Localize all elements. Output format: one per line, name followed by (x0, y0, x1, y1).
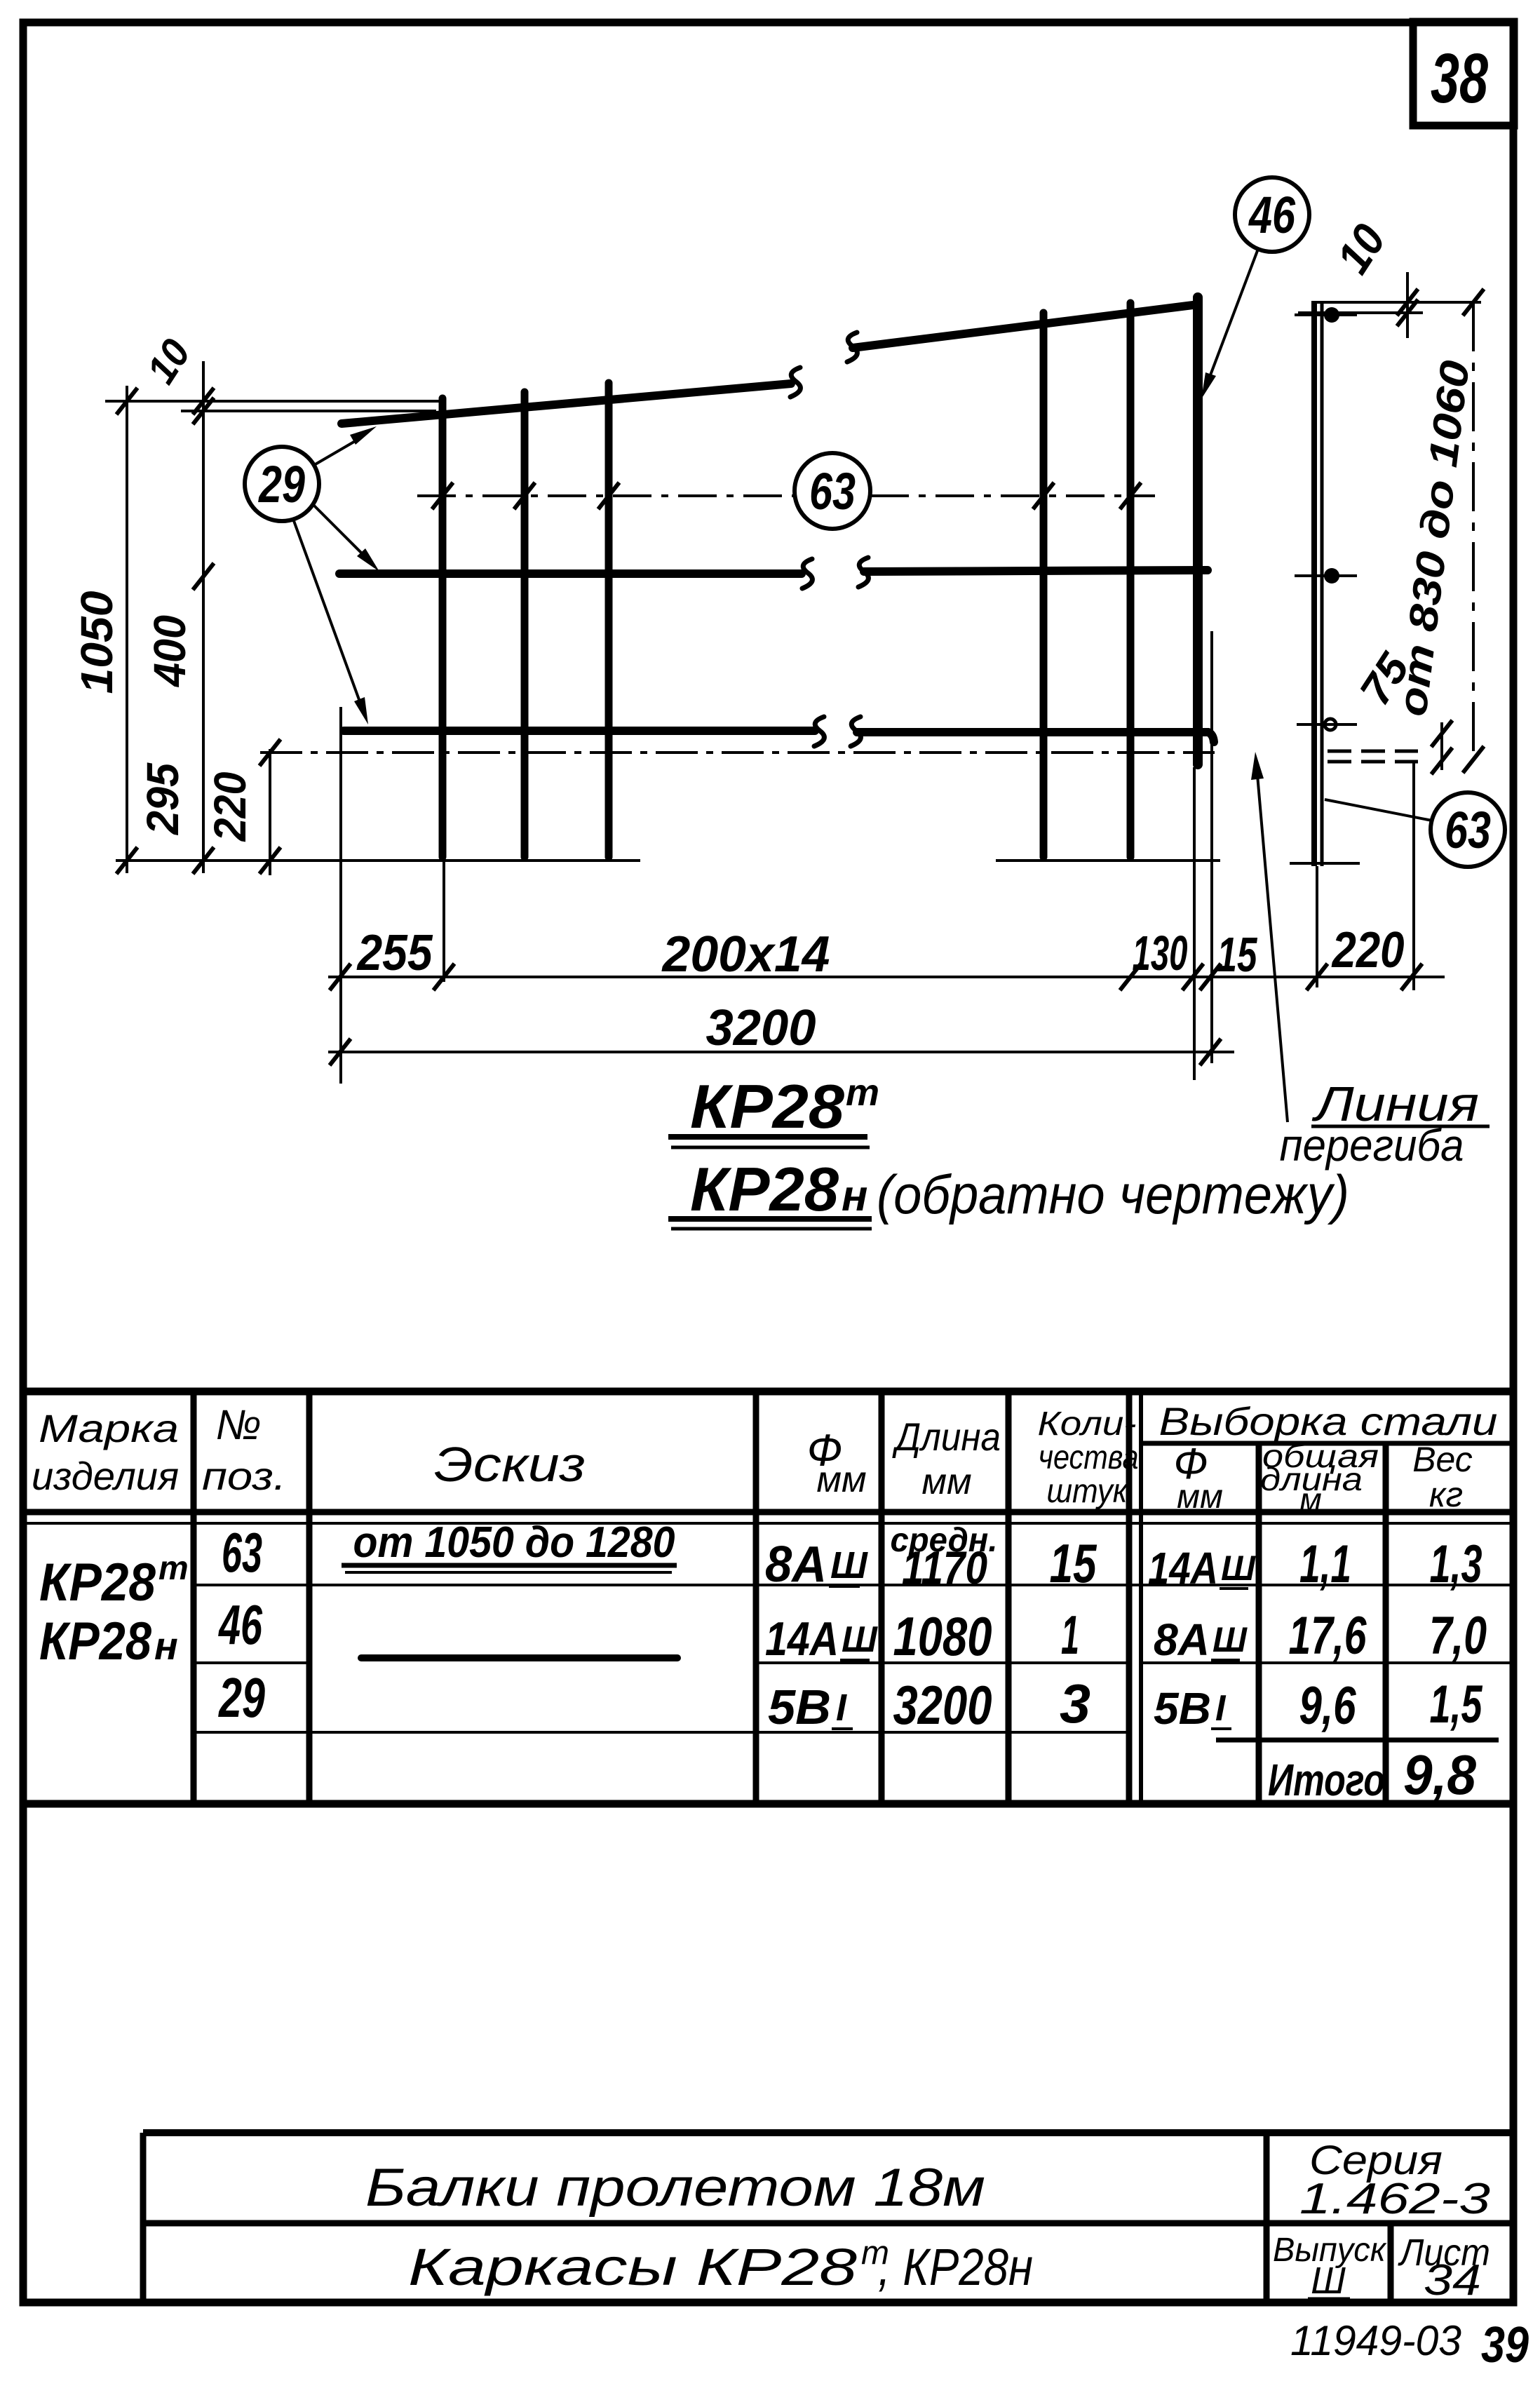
svg-text:400: 400 (144, 615, 195, 688)
table v7 (1256, 1443, 1262, 1804)
table row line 1 (194, 1584, 1513, 1586)
table outer top (23, 1388, 1513, 1396)
stirrup 4 (pos 63) (1040, 313, 1048, 857)
svg-text:46: 46 (1248, 186, 1295, 244)
svg-text:мм: мм (816, 1459, 866, 1500)
svg-text:295: 295 (137, 762, 188, 835)
svg-text:15: 15 (1217, 927, 1258, 982)
svg-text:Коли-: Коли- (1038, 1405, 1137, 1443)
svg-text:перегиба: перегиба (1280, 1120, 1464, 1171)
bottom bar right segment (857, 732, 1214, 742)
svg-text:Ш: Ш (1311, 2260, 1346, 2302)
svg-text:1170: 1170 (902, 1542, 987, 1593)
svg-text:н: н (154, 1624, 178, 1668)
svg-text:от 1050 до 1280: от 1050 до 1280 (353, 1518, 675, 1567)
sketch bar row 46 (361, 1654, 677, 1661)
svg-text:Итого: Итого (1268, 1755, 1385, 1805)
svg-text:Ш: Ш (1213, 1620, 1248, 1659)
svg-text:КР28: КР28 (39, 1612, 152, 1671)
svg-text:8А: 8А (765, 1537, 827, 1593)
tick x290 y586 (193, 398, 214, 424)
tick d2 x1726 (1200, 1039, 1221, 1065)
callout circle 63 right (1431, 792, 1505, 867)
svg-text:5В: 5В (768, 1680, 831, 1734)
svg-text:63: 63 (809, 462, 856, 520)
break mark bottom bar right (851, 717, 860, 746)
title block mid (143, 2220, 1513, 2227)
break mark bottom bar left (814, 717, 824, 746)
section fold dashes upper (1328, 750, 1418, 753)
tick d1 x1612 (1120, 964, 1141, 990)
title block left (140, 2133, 147, 2302)
svg-text:29: 29 (257, 455, 305, 513)
svg-text:Эскиз: Эскиз (434, 1437, 586, 1492)
tick x2007 y446 (1397, 299, 1418, 326)
tick d1 x1726 (1200, 964, 1221, 990)
table v5 (1006, 1391, 1012, 1804)
svg-text:29: 29 (218, 1666, 266, 1729)
svg-text:№: № (216, 1401, 262, 1448)
tick d1 x485 (330, 964, 351, 990)
break mark top bar left (790, 367, 800, 397)
svg-text:Каркасы КР28: Каркасы КР28 (408, 2238, 857, 2296)
section top bar dot (1324, 307, 1339, 323)
svg-text:1: 1 (1061, 1604, 1079, 1666)
svg-text:Ш: Ш (830, 1544, 868, 1586)
base reference line (116, 861, 1360, 863)
bottom bar (pos 29) left segment (344, 727, 815, 735)
top reference line (105, 400, 440, 403)
leader 29 to top bar (314, 438, 361, 465)
tick x385 y1073 (259, 739, 281, 766)
svg-text:14А: 14А (765, 1612, 839, 1666)
tick x290 y1227 (193, 847, 214, 874)
ext x2016 (1412, 761, 1415, 990)
section middle bar dot (1324, 568, 1339, 584)
svg-text:Марка: Марка (39, 1406, 179, 1450)
tick x2056 y1046 (1431, 720, 1452, 747)
leader 29 to middle bar (313, 504, 363, 555)
svg-text:17,6: 17,6 (1289, 1606, 1367, 1666)
svg-text:т: т (158, 1550, 189, 1587)
svg-text:мм: мм (921, 1462, 971, 1502)
svg-text:1.462-3: 1.462-3 (1299, 2175, 1490, 2223)
table v4 (879, 1391, 885, 1804)
dim extension x385 (269, 749, 271, 875)
svg-text:, КР28н: , КР28н (878, 2238, 1033, 2296)
svg-text:1050: 1050 (72, 591, 122, 694)
ext x1728 (1210, 631, 1213, 1063)
svg-text:220: 220 (205, 772, 255, 842)
callout circle 46 (1235, 177, 1309, 252)
tick d2 x485 (330, 1039, 351, 1065)
second top reference line (181, 410, 436, 412)
sheet number box (1413, 22, 1514, 126)
break mark middle bar left (802, 559, 812, 588)
tick x2101 y1083 (1463, 746, 1484, 773)
выборка стали underline (1141, 1441, 1513, 1446)
table v6 double (1126, 1391, 1133, 1804)
middle bar (pos 29) left segment (339, 569, 802, 578)
stirrup 1 (pos 63) (439, 398, 447, 857)
svg-text:10: 10 (138, 332, 199, 392)
table header bottom thick (23, 1509, 1513, 1516)
tick x290 y822 (193, 563, 214, 590)
tick d1 x2013 (1401, 964, 1422, 990)
tick x2101 y431 (1463, 289, 1484, 316)
svg-text:11949-03: 11949-03 (1290, 2317, 1461, 2364)
title block v лист (1388, 2223, 1394, 2302)
table v2 (306, 1391, 313, 1804)
svg-text:мм: мм (1177, 1478, 1223, 1516)
ext x633 (443, 861, 445, 982)
ext x486 (339, 707, 342, 1084)
svg-text:255: 255 (356, 925, 433, 981)
tick x2056 y1085 (1431, 748, 1452, 774)
svg-text:чества: чества (1039, 1439, 1139, 1476)
section fold dashes lower (1328, 760, 1418, 764)
svg-text:8А: 8А (1154, 1614, 1210, 1665)
svg-text:130: 130 (1133, 926, 1188, 980)
svg-text:Ш: Ш (1221, 1549, 1256, 1588)
top bar (pos 29) left segment (342, 384, 791, 424)
leader 63 right to section bar (1325, 800, 1432, 821)
right top reference line (1312, 301, 1481, 304)
svg-text:39: 39 (1481, 2317, 1529, 2373)
svg-text:5В: 5В (1154, 1683, 1211, 1734)
svg-text:Выборка стали: Выборка стали (1159, 1399, 1498, 1443)
center line tick s2 (514, 483, 535, 509)
svg-text:9,6: 9,6 (1299, 1676, 1357, 1736)
table row line 2 (194, 1661, 1513, 1664)
table v1 (191, 1391, 197, 1804)
leader 46 to end bar (1209, 249, 1258, 379)
svg-text:10: 10 (1327, 215, 1396, 282)
stirrup 5 (pos 63) (1127, 303, 1135, 857)
svg-text:Ш: Ш (842, 1619, 878, 1660)
bottom dim line 1 (328, 976, 1445, 978)
svg-text:I: I (1215, 1688, 1227, 1729)
table v3 (753, 1391, 759, 1804)
svg-text:220: 220 (1331, 922, 1405, 978)
svg-text:н: н (842, 1172, 867, 1220)
svg-text:3200: 3200 (893, 1674, 992, 1736)
svg-text:9,8: 9,8 (1403, 1743, 1476, 1806)
callout circle 63 left (795, 453, 870, 529)
leader линия перегиба (1256, 759, 1288, 1122)
svg-text:Длина: Длина (892, 1415, 1001, 1459)
svg-text:м: м (1299, 1481, 1322, 1518)
table header bottom thin (23, 1522, 1513, 1525)
stirrup 3 (pos 63) (605, 383, 613, 857)
svg-text:63: 63 (1445, 801, 1491, 859)
svg-text:КР28: КР28 (690, 1072, 844, 1141)
svg-text:3200: 3200 (706, 1000, 816, 1056)
svg-text:1,1: 1,1 (1299, 1535, 1351, 1594)
svg-text:3: 3 (1060, 1673, 1090, 1734)
dim extension x290 (202, 361, 205, 873)
tick x181 y1227 (116, 847, 137, 874)
svg-text:46: 46 (218, 1593, 263, 1656)
ext x1703 (1193, 767, 1196, 1080)
callout circle 29 (245, 447, 319, 521)
tick d1 x1701 (1182, 964, 1203, 990)
end bar (pos 46) (1193, 297, 1203, 764)
top bar right segment (853, 304, 1198, 348)
svg-text:КР28: КР28 (39, 1553, 156, 1612)
section tick bottom (1297, 723, 1357, 726)
svg-text:поз.: поз. (202, 1454, 286, 1498)
dim line 75 (1440, 722, 1443, 770)
tick d1 x1878 (1306, 964, 1328, 990)
svg-text:200х14: 200х14 (661, 926, 830, 983)
svg-text:штук: штук (1047, 1473, 1129, 1510)
table row line 3 (194, 1731, 1129, 1734)
title block top (143, 2129, 1513, 2136)
tick x290 y572 (193, 388, 214, 414)
tick x181 y572 (116, 388, 137, 414)
center line tick s1 (432, 483, 453, 509)
svg-text:63: 63 (222, 1521, 262, 1584)
section tick top (1295, 313, 1357, 316)
break mark middle bar right (858, 558, 868, 587)
center line (417, 494, 1155, 497)
tick x385 y1227 (259, 847, 281, 874)
section bottom bar circle (1325, 719, 1336, 730)
svg-text:изделия: изделия (32, 1454, 179, 1498)
center line tick s4 (1033, 483, 1054, 509)
break mark top bar right (847, 332, 857, 362)
svg-text:14А: 14А (1148, 1543, 1218, 1593)
итого overline (1216, 1738, 1499, 1743)
title block v серия (1264, 2133, 1270, 2302)
dim extension x181 (126, 386, 128, 873)
dim line 10 right (1406, 272, 1409, 338)
stirrup 2 (pos 63) (521, 392, 529, 857)
svg-text:I: I (836, 1687, 847, 1729)
section tick middle (1295, 574, 1357, 577)
svg-text:15: 15 (1050, 1532, 1097, 1594)
svg-text:1,5: 1,5 (1430, 1675, 1483, 1734)
svg-text:КР28: КР28 (690, 1154, 839, 1224)
dim line от 830 до 1060 (1472, 302, 1475, 761)
bottom dim line 2 (3200) (328, 1051, 1234, 1053)
svg-text:(обратно чертежу): (обратно чертежу) (877, 1163, 1349, 1225)
tick x2007 y431 (1397, 289, 1418, 316)
center line tick s3 (598, 483, 619, 509)
svg-text:кг: кг (1429, 1475, 1463, 1514)
section bar thick line (1311, 301, 1317, 866)
svg-text:38: 38 (1431, 39, 1488, 118)
table v8 (1383, 1443, 1389, 1804)
svg-text:34: 34 (1424, 2256, 1481, 2305)
middle bar right segment (864, 570, 1208, 572)
svg-text:т: т (846, 1072, 879, 1114)
svg-text:1080: 1080 (893, 1605, 992, 1667)
section bar thin line (1321, 301, 1324, 866)
svg-text:7,0: 7,0 (1429, 1606, 1487, 1666)
svg-text:1,3: 1,3 (1430, 1535, 1482, 1594)
svg-text:Вес: Вес (1412, 1440, 1473, 1479)
table bottom (23, 1800, 1513, 1808)
center line tick s5 (1120, 483, 1141, 509)
svg-text:Балки пролетом 18м: Балки пролетом 18м (365, 2158, 985, 2218)
fold line (dash-dot) (260, 751, 1215, 754)
tick d1 x633 (433, 964, 454, 990)
leader 29 to bottom bar (293, 519, 360, 703)
ext x1878 (1316, 866, 1318, 987)
right second reference line (1298, 311, 1423, 314)
